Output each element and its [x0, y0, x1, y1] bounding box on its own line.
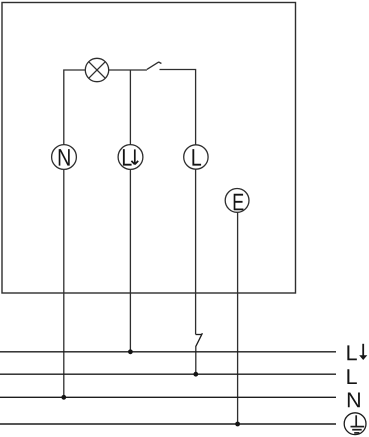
- terminal L: [184, 145, 208, 169]
- terminal N: [52, 145, 77, 170]
- earth symbol PE: [344, 413, 366, 435]
- bus line L-down: [0, 351, 336, 353]
- terminal E: [225, 189, 249, 213]
- switch S1 arm: [147, 62, 162, 70]
- label L-down: [347, 344, 367, 360]
- wire E terminal down to PE bus: [237, 213, 239, 425]
- junction dot L: [193, 372, 198, 377]
- lamp E1: [85, 58, 108, 81]
- terminal L-down: [118, 145, 143, 170]
- wire junction to L-down terminal: [129, 70, 131, 145]
- label L: [347, 369, 356, 384]
- wire L terminal down to contact: [195, 169, 197, 334]
- label N: [348, 393, 360, 408]
- wire lamp left to corner: [64, 70, 86, 145]
- bus line PE: [0, 423, 336, 425]
- bus line N: [0, 396, 336, 398]
- junction dot PE: [235, 422, 240, 427]
- junction dot N: [61, 395, 66, 400]
- wire switch to L terminal corner: [160, 70, 196, 145]
- junction dot L-down: [128, 349, 133, 354]
- wire lamp right to switch: [109, 69, 147, 71]
- wire contact down to L bus: [195, 346, 197, 374]
- contact S2 (normally open): [196, 333, 203, 346]
- bus line L: [0, 373, 336, 375]
- wire N terminal down to N bus: [63, 169, 65, 397]
- wire L-down terminal down to L-down bus: [129, 169, 131, 351]
- device enclosure box: [2, 3, 296, 294]
